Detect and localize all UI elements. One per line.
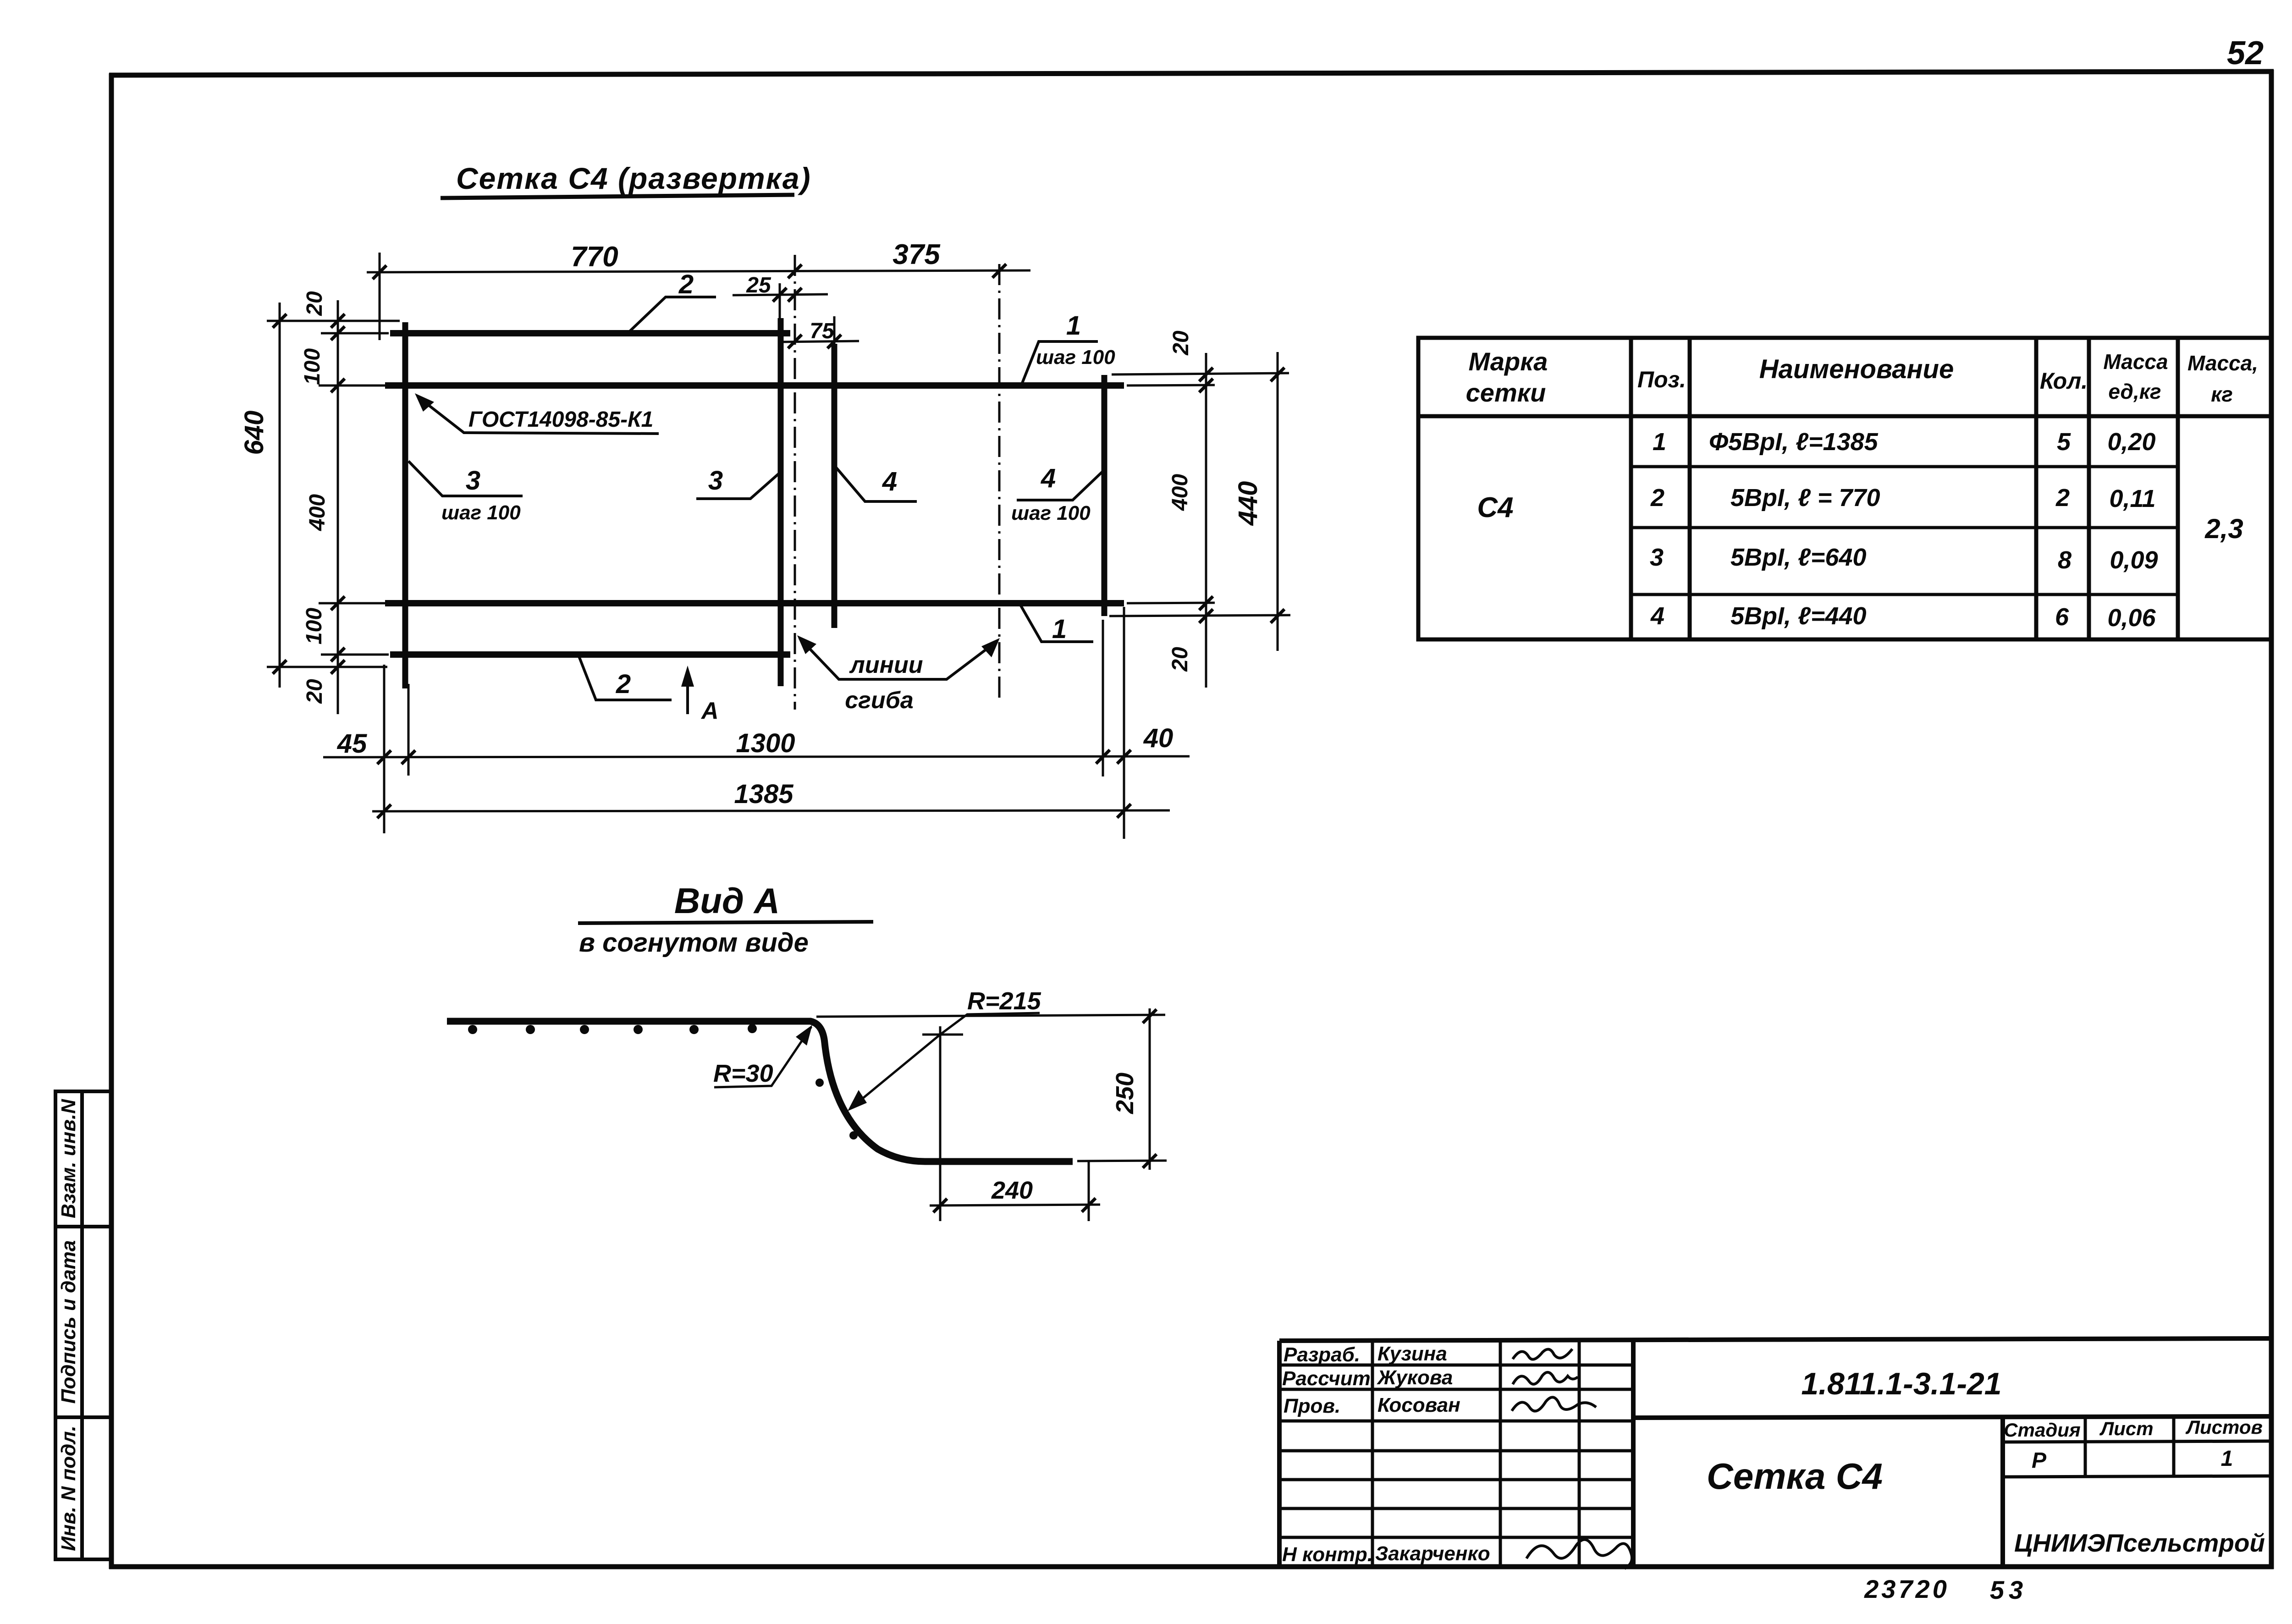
tick 40 right — [1117, 750, 1131, 764]
svg-text:0,11: 0,11 — [2109, 485, 2155, 512]
tick 1300 right — [1096, 750, 1110, 764]
svg-text:400: 400 — [1168, 474, 1192, 511]
svg-text:1.811.1-3.1-21: 1.811.1-3.1-21 — [1801, 1366, 2001, 1401]
leader for GOST weld note — [418, 397, 659, 434]
R30 leader — [714, 1027, 811, 1087]
bent mesh profile — [447, 1021, 1073, 1162]
svg-text:Разраб.: Разраб. — [1284, 1343, 1360, 1366]
svg-text:шаг 100: шаг 100 — [441, 501, 521, 524]
cross-wire dots on straight part — [468, 1024, 858, 1140]
svg-text:сгиба: сгиба — [845, 687, 914, 714]
svg-text:1: 1 — [1052, 614, 1067, 644]
svg-text:Инв. N подл.: Инв. N подл. — [57, 1426, 80, 1551]
cross-wire dots on curve — [815, 1079, 824, 1087]
extension mesh left edge bottom — [383, 665, 386, 833]
svg-text:20: 20 — [1168, 647, 1192, 672]
R30 arrowhead — [796, 1025, 812, 1046]
svg-text:шаг 100: шаг 100 — [1011, 502, 1091, 524]
svg-text:Масса: Масса — [2103, 350, 2168, 374]
svg-text:23720: 23720 — [1864, 1574, 1950, 1603]
tick 1385 left — [377, 804, 391, 818]
leader for wire 4 right — [1017, 471, 1103, 500]
svg-text:1385: 1385 — [734, 779, 793, 809]
R215 center cross bar — [922, 1034, 963, 1036]
svg-text:53: 53 — [1990, 1575, 2028, 1604]
svg-text:Жукова: Жукова — [1377, 1366, 1453, 1389]
svg-text:5ВрI, ℓ=440: 5ВрI, ℓ=440 — [1730, 602, 1867, 630]
fold lines leader polyline — [799, 638, 997, 679]
left overall 640 dimension line — [279, 303, 281, 688]
svg-text:45: 45 — [337, 729, 367, 759]
svg-text:440: 440 — [1233, 481, 1263, 526]
view A title underline — [578, 922, 873, 923]
svg-text:1: 1 — [1066, 311, 1081, 341]
svg-text:Н контр.: Н контр. — [1282, 1543, 1373, 1566]
svg-text:линии: линии — [848, 652, 923, 678]
arrowhead on GOST leader — [415, 393, 434, 412]
extension of wire3 right above mesh — [779, 283, 781, 321]
svg-text:100: 100 — [300, 348, 325, 385]
R215 radius arrowhead — [848, 1090, 867, 1111]
svg-text:Пров.: Пров. — [1284, 1395, 1340, 1417]
svg-text:0,20: 0,20 — [2107, 428, 2155, 456]
svg-text:Взам. инв.N: Взам. инв.N — [57, 1099, 80, 1218]
svg-text:R=215: R=215 — [967, 987, 1041, 1015]
svg-text:Р: Р — [2032, 1448, 2047, 1473]
tick 640 bottom — [273, 660, 286, 674]
svg-text:сетки: сетки — [1466, 378, 1546, 407]
svg-text:2: 2 — [616, 669, 631, 699]
svg-text:ед,кг: ед,кг — [2108, 380, 2161, 403]
wire 1 bottom horizontal bar (full length) — [385, 600, 1124, 606]
svg-text:6: 6 — [2055, 603, 2069, 631]
svg-text:С4: С4 — [1477, 492, 1513, 523]
tick 770 left — [373, 265, 386, 279]
svg-text:2: 2 — [2055, 484, 2070, 512]
svg-text:0,09: 0,09 — [2110, 546, 2158, 574]
svg-text:Марка: Марка — [1469, 347, 1548, 376]
svg-text:20: 20 — [303, 679, 327, 704]
svg-text:Закарченко: Закарченко — [1375, 1542, 1490, 1565]
tick 75 right — [827, 335, 841, 348]
svg-text:1: 1 — [2221, 1447, 2233, 1471]
specification table — [1418, 338, 2271, 639]
svg-text:25: 25 — [746, 273, 771, 297]
tick left chain 700 — [331, 314, 345, 328]
leader for wire 4 middle — [836, 468, 917, 501]
svg-text:20: 20 — [1169, 330, 1193, 356]
arrowhead fold leader right — [981, 638, 1000, 657]
tick 440 top — [1271, 368, 1284, 381]
tick left chain 841 — [331, 379, 345, 392]
svg-text:Подпись и дата: Подпись и дата — [57, 1240, 80, 1404]
svg-text:640: 640 — [239, 411, 269, 455]
left chain dimension line 20/100/400/100/20 — [337, 300, 339, 714]
left section column dividers — [1371, 1341, 1374, 1567]
tick 770/375 mid — [788, 264, 802, 278]
extension wire1 right end bottom — [1123, 607, 1125, 839]
tick 75 left — [788, 335, 802, 348]
bottom dimension line 1385 — [372, 810, 1170, 811]
tick 240 left — [933, 1199, 947, 1212]
extension line left mesh edge top — [379, 253, 381, 340]
tick right chain 1344 — [1199, 609, 1213, 623]
tick right chain 1316 — [1199, 596, 1213, 610]
svg-text:Масса,: Масса, — [2187, 351, 2258, 375]
left horizontal extension y727 — [321, 332, 389, 335]
svg-text:2: 2 — [1650, 484, 1664, 512]
tick 45 left — [377, 750, 391, 764]
wire 1 top horizontal bar (full length) — [385, 382, 1124, 389]
svg-text:Стадия: Стадия — [2004, 1419, 2080, 1441]
svg-text:375: 375 — [893, 239, 941, 270]
tick 250 bottom — [1143, 1154, 1157, 1168]
right flap top edge extension — [1112, 373, 1289, 374]
svg-text:R=30: R=30 — [713, 1060, 773, 1087]
svg-text:Косован: Косован — [1377, 1394, 1460, 1416]
left horizontal extension y1455 — [267, 666, 387, 668]
svg-text:3: 3 — [466, 466, 480, 495]
wire 2 bottom horizontal bar — [390, 651, 790, 658]
tick left chain 1316 — [331, 596, 345, 610]
svg-text:2: 2 — [678, 270, 694, 299]
svg-text:Листов: Листов — [2185, 1416, 2263, 1438]
table row line 3 — [1631, 593, 2178, 596]
svg-text:Кол.: Кол. — [2040, 368, 2088, 394]
svg-text:400: 400 — [305, 494, 330, 531]
svg-text:100: 100 — [302, 608, 326, 644]
tick 25 left — [773, 288, 787, 302]
svg-text:5ВрI, ℓ = 770: 5ВрI, ℓ = 770 — [1730, 484, 1880, 512]
tick left chain 1428 — [331, 648, 345, 661]
svg-text:Кузина: Кузина — [1377, 1343, 1447, 1365]
right extension of wire1 bottom — [1127, 603, 1215, 603]
240 dimension line — [930, 1205, 1100, 1206]
wire 3 right vertical bar — [778, 318, 784, 686]
tick 440 bottom — [1271, 609, 1284, 623]
fold line 2 (линия сгиба) chain line — [998, 264, 1001, 702]
leader for wire 3 left — [408, 461, 523, 496]
svg-text:ЦНИИЭПсельстрой: ЦНИИЭПсельстрой — [2014, 1529, 2265, 1557]
svg-text:240: 240 — [991, 1177, 1033, 1204]
svg-text:Сетка С4: Сетка С4 — [1707, 1456, 1883, 1497]
svg-text:3: 3 — [708, 466, 723, 495]
left sidebar stamp boxes — [55, 1091, 111, 1559]
bottom dimension line 45/1300/40 — [323, 756, 1190, 757]
svg-text:770: 770 — [571, 241, 618, 273]
svg-text:250: 250 — [1111, 1073, 1139, 1114]
tick 640 top — [273, 314, 286, 328]
extension wire4 right bottom — [1102, 620, 1104, 776]
leader for wire 1 bottom — [1020, 604, 1093, 642]
250 dimension line — [1149, 1008, 1151, 1170]
tick 375 right — [992, 264, 1006, 278]
table row line 1 — [1631, 465, 2178, 468]
extension wire3 left bottom — [408, 684, 410, 776]
tick 1385 right — [1117, 804, 1131, 818]
svg-text:8: 8 — [2058, 546, 2072, 574]
wire 2 top horizontal bar — [390, 330, 790, 336]
svg-text:3: 3 — [1650, 544, 1664, 571]
svg-text:1: 1 — [1653, 428, 1666, 456]
title block (штамп) — [1279, 1338, 2271, 1567]
extension line from bend to 250 dim — [816, 1015, 1165, 1017]
svg-text:Сетка С4 (развертка): Сетка С4 (развертка) — [456, 161, 811, 195]
tick 45 right — [402, 750, 415, 764]
top dimension line 770/375 — [367, 270, 1030, 272]
svg-text:кг: кг — [2211, 382, 2233, 406]
right flap bottom edge extension — [1109, 615, 1290, 616]
tick left chain 727 — [331, 326, 345, 340]
view A arrow — [686, 674, 689, 714]
arrowhead fold leader left — [797, 635, 816, 654]
svg-text:40: 40 — [1143, 723, 1174, 753]
tick 240 right — [1082, 1198, 1096, 1212]
leader for wire 1 top — [1021, 341, 1098, 386]
svg-text:52: 52 — [2227, 35, 2264, 72]
fold line 1 (линия сгиба) chain line — [794, 255, 796, 710]
tick left chain 1455 — [331, 660, 345, 674]
svg-text:в согнутом виде: в согнутом виде — [579, 928, 809, 958]
svg-text:2,3: 2,3 — [2204, 513, 2243, 544]
svg-text:Лист: Лист — [2099, 1418, 2153, 1439]
svg-text:1300: 1300 — [736, 728, 795, 758]
dimension line 25 — [733, 294, 828, 295]
tick 25 right — [788, 288, 802, 302]
svg-text:Ф5ВрI, ℓ=1385: Ф5ВрI, ℓ=1385 — [1709, 428, 1879, 456]
svg-text:5: 5 — [2057, 428, 2071, 456]
svg-text:5ВрI, ℓ=640: 5ВрI, ℓ=640 — [1730, 544, 1867, 571]
tick right chain 817 — [1199, 368, 1213, 381]
extension of wire4 mid above bar — [833, 316, 836, 345]
left horizontal extension y841 — [319, 385, 386, 387]
right chain dimension line 20/400/20 — [1205, 353, 1207, 688]
svg-text:0,06: 0,06 — [2107, 604, 2156, 632]
title underline — [441, 195, 794, 198]
right overall 440 dimension line — [1277, 352, 1279, 651]
svg-text:20: 20 — [303, 291, 327, 316]
svg-text:4: 4 — [882, 467, 897, 496]
svg-text:шаг 100: шаг 100 — [1036, 346, 1115, 369]
svg-text:ГОСТ14098-85-К1: ГОСТ14098-85-К1 — [468, 407, 653, 432]
left section row lines — [1279, 1364, 1633, 1367]
extension line from bottom end to 250 dim — [1077, 1161, 1167, 1161]
R215 radius line with leader — [940, 1013, 1040, 1035]
leader for wire 2 top — [626, 297, 716, 335]
240 right extension — [1088, 1161, 1090, 1221]
svg-text:Наименование: Наименование — [1759, 354, 1954, 384]
svg-text:4: 4 — [1041, 463, 1056, 493]
wire 4 middle vertical bar — [832, 344, 837, 628]
leader for wire 2 bottom — [579, 656, 672, 700]
signature squiggles — [1512, 1349, 1632, 1569]
left horizontal extension y1428 — [321, 654, 389, 656]
table row line 2 — [1631, 526, 2178, 529]
svg-text:4: 4 — [1650, 602, 1664, 630]
leader for wire 3 middle — [696, 471, 782, 499]
wire 3 left vertical bar — [402, 322, 408, 688]
left horizontal extension y1316 — [319, 602, 386, 605]
svg-text:Рассчит.: Рассчит. — [1282, 1367, 1376, 1390]
R215 center vertical line — [939, 1026, 942, 1221]
left horizontal extension y700 — [267, 320, 400, 322]
stage sub-table — [2003, 1441, 2271, 1442]
dimension line 75 — [779, 341, 859, 342]
svg-text:А: А — [700, 698, 719, 724]
svg-text:Вид А: Вид А — [674, 881, 780, 921]
svg-text:75: 75 — [810, 319, 835, 343]
tick 250 top — [1143, 1009, 1157, 1023]
wire 4 right vertical bar — [1102, 375, 1107, 616]
right extension of wire1 top — [1127, 385, 1215, 385]
tick right chain 841 — [1199, 379, 1213, 392]
svg-text:Поз.: Поз. — [1637, 367, 1686, 392]
